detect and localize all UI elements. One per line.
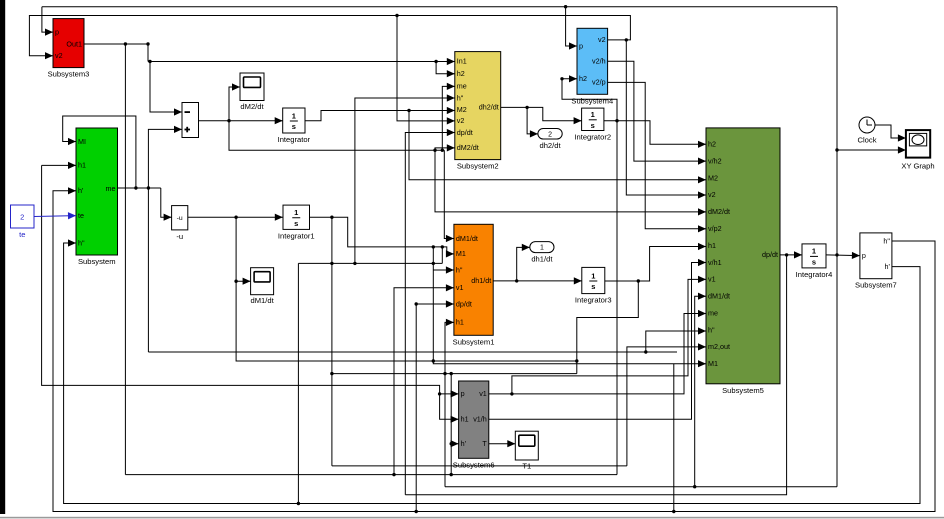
wire sum out to Integrator <box>199 117 283 124</box>
svg-text:1: 1 <box>292 111 296 120</box>
svg-text:v2/h: v2/h <box>592 57 606 66</box>
wire bottom rail 474 <box>125 474 617 476</box>
wire p into Subsystem4 <box>566 7 577 50</box>
svg-text:Clock: Clock <box>858 136 877 145</box>
sum plus sign <box>185 127 191 133</box>
subsystem Subsystem7 (white) <box>855 233 897 290</box>
svg-text:Subsystem: Subsystem <box>78 257 116 266</box>
svg-text:v/h2: v/h2 <box>708 156 722 165</box>
wire me rail riser to Subsystem5 h" <box>646 327 706 352</box>
subsystem Subsystem5 (olive) <box>706 128 780 395</box>
node p tee <box>438 392 441 395</box>
wire Integrator2 out <box>604 121 706 148</box>
node h2 tee <box>615 119 618 122</box>
svg-text:h1: h1 <box>461 415 469 424</box>
bottom window edge line <box>0 517 944 519</box>
wire dp up to Subsystem2 <box>405 129 455 495</box>
node M1 tee <box>330 216 333 219</box>
svg-text:v1/h: v1/h <box>473 415 487 424</box>
node on bottom rail <box>297 502 300 505</box>
wire te (blue) <box>34 212 76 219</box>
wire dM1 feed to Subsystem1 <box>444 150 454 242</box>
node dM2 rail tee me <box>441 149 444 152</box>
wire dh1/dt out <box>493 277 582 284</box>
node rail474 tee v1 <box>392 473 395 476</box>
svg-text:1: 1 <box>591 271 595 280</box>
svg-text:h": h" <box>457 93 464 102</box>
wire to scope dM1/dt <box>236 217 251 285</box>
svg-text:p: p <box>55 27 59 36</box>
svg-text:p: p <box>862 251 866 260</box>
svg-text:h': h' <box>78 186 84 195</box>
wire Subsystem7 h' out <box>64 239 920 503</box>
svg-text:-u: -u <box>177 215 183 222</box>
svg-text:Out1: Out1 <box>66 39 82 48</box>
svg-text:p: p <box>461 389 465 398</box>
node me tee sum plus <box>147 186 150 189</box>
wire dp up to Subsystem1 <box>416 300 454 511</box>
wire Integrator1 out M1 <box>310 217 454 257</box>
output port 1 dh1/dt <box>530 242 554 264</box>
gain -u <box>172 206 188 241</box>
svg-text:v2: v2 <box>598 35 606 44</box>
subsystem Subsystem6 (gray) <box>453 381 495 469</box>
svg-text:me: me <box>708 308 718 317</box>
svg-text:h": h" <box>883 236 890 245</box>
node p rail tee to Subsystem4 <box>564 5 567 8</box>
svg-text:1: 1 <box>812 247 816 256</box>
scope T1 <box>515 431 538 470</box>
scope dM2/dt <box>240 73 264 111</box>
svg-text:T: T <box>482 439 487 448</box>
wire v1 into Subsystem1 <box>394 284 454 474</box>
node In1 tee to sum <box>148 60 151 63</box>
svg-text:s: s <box>591 282 595 291</box>
svg-text:Integrator1: Integrator1 <box>278 231 315 240</box>
svg-text:1: 1 <box>540 245 544 252</box>
svg-text:te: te <box>19 230 25 239</box>
node dp tee2 <box>415 510 418 513</box>
wire m2out riser <box>627 343 706 466</box>
svg-text:2: 2 <box>548 131 552 138</box>
wire long h1/p wire <box>42 165 459 423</box>
node dM2 tee <box>227 119 230 122</box>
svg-text:v2: v2 <box>708 190 716 199</box>
svg-text:p: p <box>579 41 583 50</box>
wire Out1 output <box>84 43 148 45</box>
wire riser to Subsystem5 M1... (h2 in) <box>673 364 675 512</box>
svg-text:v1: v1 <box>479 389 487 398</box>
wire me into Subsystem2 <box>442 83 455 150</box>
svg-text:h2: h2 <box>708 140 716 149</box>
node rail361 int3 tee <box>575 359 578 362</box>
node v1 tee hat <box>510 392 513 395</box>
wire dp down <box>405 255 786 495</box>
svg-text:Subsystem5: Subsystem5 <box>722 386 764 395</box>
wire h-prime col down <box>450 374 452 475</box>
svg-text:M1: M1 <box>456 249 466 258</box>
gain -u text <box>177 215 183 222</box>
node dM1 scope tee <box>234 280 237 283</box>
node me line MI tee <box>134 186 137 189</box>
wire p net top rail <box>42 6 837 8</box>
svg-text:M2: M2 <box>708 173 718 182</box>
subsystem Subsystem (green) <box>76 128 118 266</box>
wire 263 down to bottom <box>297 263 299 503</box>
xy graph block <box>901 130 934 170</box>
svg-text:XY Graph: XY Graph <box>901 162 934 171</box>
integrator Integrator3 <box>575 267 612 304</box>
wire p into XY graph in2 <box>837 146 906 153</box>
node dh2 tee <box>525 106 528 109</box>
wire v2/p to Subsystem5 <box>608 82 706 232</box>
wire h2 into Subsystem2 <box>436 62 455 78</box>
wire Out1 down to In1 rail <box>147 44 149 62</box>
svg-text:m2,out: m2,out <box>708 342 730 351</box>
integrator Integrator4 <box>796 244 833 279</box>
wire M1 net down <box>331 217 333 466</box>
subsystem Subsystem4 (blue) <box>571 28 613 105</box>
wire M1 rail to Subsystem5 <box>433 360 706 367</box>
wire Subsystem6 v1 out <box>489 310 706 394</box>
node me rail h2 tee <box>644 350 647 353</box>
svg-text:h": h" <box>708 325 715 334</box>
wire h" into Subsystem1 <box>433 266 454 273</box>
node Out1 tee 2 <box>146 42 149 45</box>
node v2 tee to Subsystem2 <box>395 14 398 17</box>
wire dh1 to port oval <box>517 244 530 281</box>
svg-text:s: s <box>591 121 595 130</box>
wire rail486 up to Subsystem1 h1 <box>445 319 454 487</box>
node h1 tee <box>637 279 640 282</box>
wire h-prime branch <box>332 373 577 375</box>
node rail361 tee <box>432 359 435 362</box>
node dM2 rail tee <box>433 149 436 152</box>
wire p bottom rail <box>445 486 837 488</box>
svg-text:te: te <box>78 211 84 220</box>
input port te (blue) <box>11 205 35 239</box>
wire v1 hat to Subsystem5 v1 <box>512 276 706 394</box>
wire dM2 down to Subsystem5 <box>435 150 706 215</box>
node In1 rail tee h2 <box>434 60 437 63</box>
wire In1 rail <box>148 58 455 65</box>
node col433 crossrail tee <box>432 262 435 265</box>
subsystem Subsystem1 (orange) <box>453 224 495 346</box>
svg-text:dp/dt: dp/dt <box>457 128 473 137</box>
wire h2 up to Subsystem4 <box>562 75 617 120</box>
svg-text:Subsystem6: Subsystem6 <box>453 460 495 469</box>
wire rail 4659 <box>332 465 627 467</box>
svg-text:1: 1 <box>294 208 298 217</box>
wire clock to XY graph <box>875 125 906 142</box>
wire col433 down <box>432 247 434 361</box>
svg-text:me: me <box>457 82 467 91</box>
node p tee on Integrator4 output <box>835 253 838 256</box>
svg-text:v1: v1 <box>708 275 716 284</box>
node rail511 M1 riser <box>672 510 675 513</box>
node h-prime tee <box>330 372 333 375</box>
integrator Integrator <box>278 108 311 144</box>
output port 2 dh2/dt <box>538 129 562 151</box>
node M2 tee <box>407 109 410 112</box>
node v2 tee down <box>625 38 628 41</box>
svg-text:2: 2 <box>20 213 24 222</box>
svg-text:h2: h2 <box>457 69 465 78</box>
wire p right vertical <box>836 7 838 487</box>
wire dp/dt to Integrator4 <box>780 251 802 258</box>
wire -u out to Integrator1 <box>188 214 283 221</box>
svg-text:Integrator2: Integrator2 <box>574 133 611 142</box>
wire me down <box>147 188 149 352</box>
wire me into -u <box>161 188 172 221</box>
wire Integrator out M2 <box>305 107 455 121</box>
node Out1 tee 1 <box>124 42 127 45</box>
wire Out1 down left branch <box>124 44 126 475</box>
wire me to sum plus <box>148 126 182 188</box>
node h' tee <box>450 442 453 445</box>
svg-text:Integrator4: Integrator4 <box>796 270 833 279</box>
svg-text:h": h" <box>456 265 463 274</box>
left black strip <box>0 0 5 514</box>
wire me rail <box>148 351 677 353</box>
svg-text:Integrator3: Integrator3 <box>575 296 612 305</box>
svg-text:dM2/dt: dM2/dt <box>240 102 264 111</box>
wire dh2 to port oval <box>527 107 538 137</box>
wire into Subsystem6 p <box>440 390 459 397</box>
svg-text:In1: In1 <box>457 56 467 65</box>
wire dM2 into Subsystem2 <box>435 144 455 151</box>
svg-text:Integrator: Integrator <box>278 135 311 144</box>
svg-text:M2: M2 <box>457 105 467 114</box>
svg-text:dh2/dt: dh2/dt <box>539 141 561 150</box>
wire Subsystem7 h" out <box>53 187 935 511</box>
svg-text:M1: M1 <box>708 359 718 368</box>
wire into sum minus <box>150 62 182 116</box>
wire 263 riser to M1 feed <box>441 247 443 264</box>
svg-text:dh1/dt: dh1/dt <box>471 276 491 285</box>
svg-text:Subsystem4: Subsystem4 <box>571 96 613 105</box>
svg-text:dM2/dt: dM2/dt <box>457 143 479 152</box>
wire Subsystem6 T out to T1 <box>489 440 516 447</box>
svg-text:v2: v2 <box>457 116 465 125</box>
clock block <box>858 117 877 145</box>
svg-text:dp/dt: dp/dt <box>456 299 472 308</box>
wire h2 down <box>616 121 618 475</box>
wire Subsystem6 v1/h out <box>489 259 706 419</box>
wire v2 down to Subsystem5 <box>626 40 706 199</box>
wire Integrator4 out to Subsystem7 <box>826 252 860 259</box>
wire dM1 rail 361 <box>236 281 577 361</box>
svg-text:dh2/dt: dh2/dt <box>479 103 499 112</box>
svg-text:v/h1: v/h1 <box>708 258 722 267</box>
svg-text:dh1/dt: dh1/dt <box>531 255 553 264</box>
svg-text:1: 1 <box>591 110 595 119</box>
integrator Integrator2 <box>574 108 611 141</box>
wire green MI feed <box>63 116 136 188</box>
wire dh2/dt out <box>501 107 582 124</box>
svg-text:v2: v2 <box>55 51 63 60</box>
wire dM1 riser to Subsystem5 <box>695 293 706 487</box>
node dp tee <box>785 253 788 256</box>
svg-text:dM2/dt: dM2/dt <box>708 207 730 216</box>
node dp arrow tee <box>415 302 418 305</box>
node rail486 dM1 riser <box>693 485 696 488</box>
svg-text:s: s <box>812 258 816 267</box>
input port te number <box>20 213 24 222</box>
svg-text:h1: h1 <box>708 241 716 250</box>
wire v2 from Subsystem4 out <box>29 16 630 60</box>
svg-text:Subsystem1: Subsystem1 <box>453 337 495 346</box>
wire v2/h to Subsystem5 <box>608 61 706 164</box>
subsystem Subsystem2 (khaki) <box>455 52 501 171</box>
node 263 rail tee h" <box>353 262 356 265</box>
node col433 top tee <box>432 245 435 248</box>
wire into Subsystem6 h' <box>451 440 459 447</box>
svg-text:h": h" <box>78 238 85 247</box>
svg-text:me: me <box>106 184 116 193</box>
svg-text:h': h' <box>461 439 467 448</box>
svg-text:dM1/dt: dM1/dt <box>708 292 730 301</box>
subsystem S3 (red) <box>48 19 90 79</box>
node p tee to XY graph <box>835 148 838 151</box>
svg-text:MI: MI <box>78 137 86 146</box>
wire v2 into Subsystem2 <box>397 16 455 125</box>
node h2 tee2 <box>560 77 563 80</box>
wire to scope dM2/dt <box>229 83 240 120</box>
svg-text:Subsystem3: Subsystem3 <box>48 70 90 79</box>
sum minus sign <box>185 111 191 113</box>
wire me out of green <box>117 187 160 189</box>
node M1 net tee2 <box>330 262 333 265</box>
wire h" into Subsystem2 <box>355 94 455 263</box>
svg-text:dM1/dt: dM1/dt <box>250 296 274 305</box>
node dh1 tee <box>515 279 518 282</box>
node -u out tee <box>234 216 237 219</box>
svg-text:Subsystem2: Subsystem2 <box>457 162 499 171</box>
svg-text:-u: -u <box>176 232 183 241</box>
node col445 cross 373 <box>443 372 446 375</box>
svg-text:h2: h2 <box>579 74 587 83</box>
wire into green h1 <box>42 162 76 169</box>
svg-text:Subsystem7: Subsystem7 <box>855 281 897 290</box>
wire 263 crossrail <box>298 262 442 264</box>
svg-text:h1: h1 <box>456 318 464 327</box>
node M1 feed join <box>441 245 444 248</box>
svg-text:h': h' <box>885 262 891 271</box>
svg-text:v2/p: v2/p <box>592 78 606 87</box>
svg-text:v/p2: v/p2 <box>708 224 722 233</box>
svg-text:h1: h1 <box>78 161 86 170</box>
wire Integrator3 out <box>605 243 706 281</box>
wire int3 staircase <box>577 281 639 374</box>
wire M2 down to Subsystem5 <box>409 111 706 184</box>
svg-text:dp/dt: dp/dt <box>762 250 778 259</box>
integrator Integrator1 <box>278 205 315 240</box>
svg-text:s: s <box>294 219 298 228</box>
node h-prime tee2 <box>450 372 453 375</box>
svg-text:dM1/dt: dM1/dt <box>456 234 478 243</box>
node h-prime rail join <box>450 473 453 476</box>
wire p into Subsystem3 <box>42 7 53 36</box>
sum block <box>182 103 199 138</box>
wire dM2 down <box>229 121 444 151</box>
svg-text:s: s <box>292 122 296 131</box>
scope dM1/dt <box>250 268 274 306</box>
svg-text:v1: v1 <box>456 283 464 292</box>
